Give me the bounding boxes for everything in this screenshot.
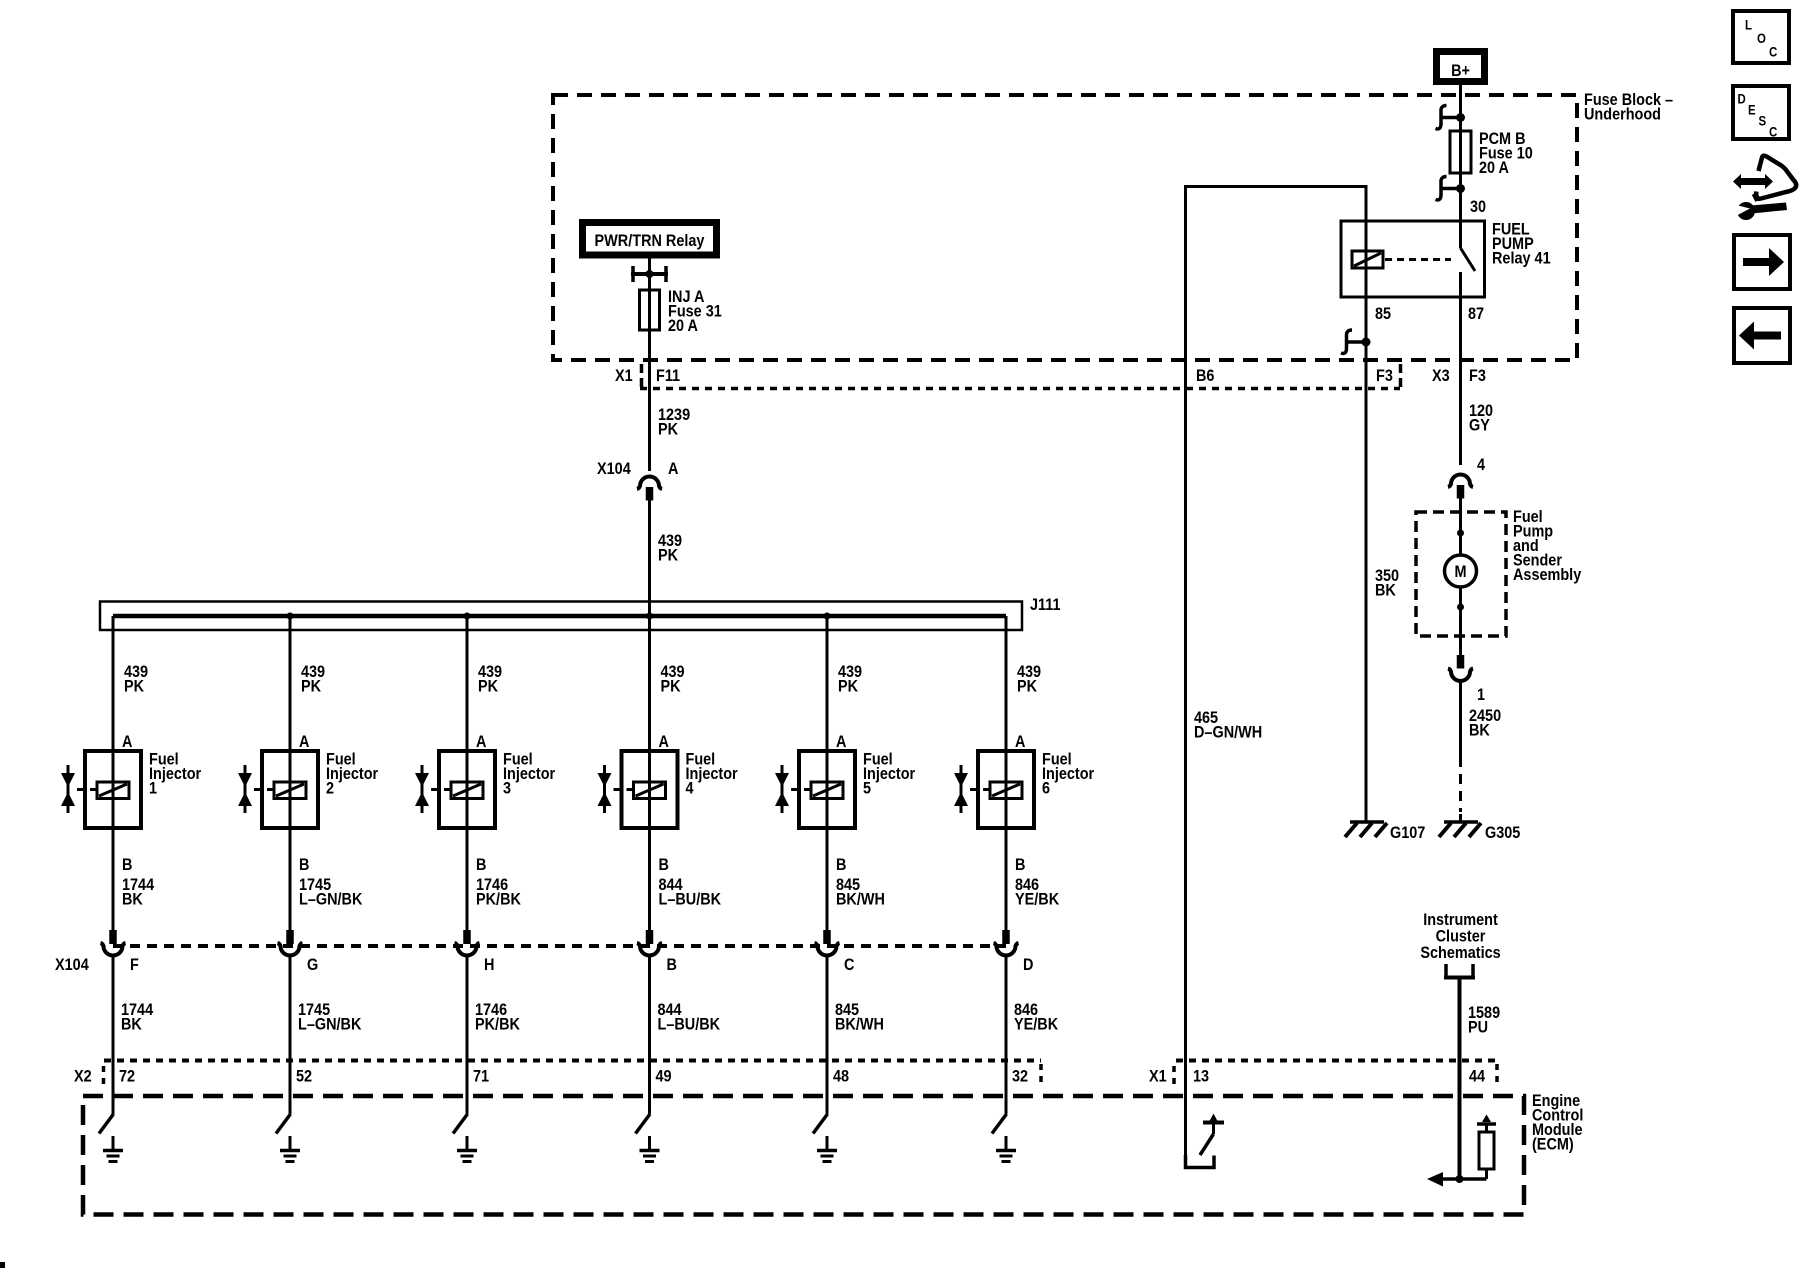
svg-text:BK/WH: BK/WH [836,890,885,908]
label: circuit 845 upper [836,876,885,909]
svg-text:44: 44 [1469,1067,1485,1085]
ECM pin 13 driver bar [1203,1114,1224,1135]
label: Fuel Injector 6 [1042,750,1094,797]
separator X2/72 [102,1066,106,1086]
off-page fork to relay [631,266,668,282]
fuel injector 1 [61,751,141,828]
svg-text:X104: X104 [55,956,89,974]
label: Fuel Injector 1 [149,750,201,797]
fuse block underhood enclosure [553,95,1577,360]
svg-text:G305: G305 [1485,824,1521,842]
svg-text:L–GN/BK: L–GN/BK [298,1015,362,1033]
svg-text:L–BU/BK: L–BU/BK [659,890,722,908]
svg-text:13: 13 [1193,1067,1209,1085]
label: ECM pin 32 [1012,1067,1028,1085]
wire: to G305 dashed [1459,757,1462,822]
wire: relay 87 to pump connector [1459,297,1462,465]
ECM internal ground pin 48 [817,1136,837,1162]
svg-text:G107: G107 [1390,824,1426,842]
label: connector X3 [1432,367,1450,385]
label: Fuel Pump and Sender Assembly [1513,508,1581,584]
svg-text:4: 4 [1477,456,1485,474]
svg-text:E: E [1748,103,1756,118]
label: J111 [1030,596,1061,614]
ECM internal ground pin 49 [640,1136,660,1162]
svg-text:48: 48 [833,1067,849,1085]
label: ECM pin 44 [1469,1067,1485,1085]
label: pin F3 right [1469,367,1486,385]
ECM internal ground pin 52 [280,1136,300,1162]
PWR/TRN Relay reference box [579,219,720,259]
ECM pin 44 pull-up resistor [1477,1115,1496,1180]
svg-text:X3: X3 [1432,367,1450,385]
wire: bus to injector 3 [466,616,469,930]
fuel injector 6 [954,751,1034,828]
wire: X104 to ECM pin 52 [289,957,292,1114]
wire: X104 to ECM pin 49 [648,957,651,1114]
svg-text:Schematics: Schematics [1420,944,1500,962]
svg-text:87: 87 [1468,305,1484,323]
connector X104 pin B [637,930,662,956]
relay coil [1352,251,1383,268]
label: connector X2 [74,1067,92,1085]
label: pin A top [668,460,678,478]
svg-text:B+: B+ [1451,62,1470,80]
label: pin A injector 1 [122,733,132,751]
off-page fork instrument cluster [1444,964,1475,978]
svg-text:F11: F11 [656,367,680,385]
label: pin C [844,956,854,974]
wire: X104 to ECM pin 32 [1005,957,1008,1114]
battery feed B+ terminal [1433,48,1488,85]
wire: X104 to ECM pin 72 [112,957,115,1114]
svg-text:X1: X1 [1149,1067,1167,1085]
nav icon DESC [1733,86,1789,140]
label: pin B injector 1 [122,856,132,874]
svg-text:PK: PK [301,677,322,695]
svg-text:Assembly: Assembly [1513,566,1581,584]
label: circuit 439 PK col 6 [1017,663,1041,696]
connector row dotted line [640,387,1400,391]
svg-text:BK: BK [122,890,143,908]
wire: X104 to ECM pin 71 [466,957,469,1114]
ECM driver blade pin 32 [992,1114,1007,1134]
label: circuit 844 upper [659,876,722,909]
label: circuit 1745 upper [299,876,363,909]
label: circuit 465 D-GN/WH [1194,709,1262,742]
label: circuit 439 PK col 5 [838,663,862,696]
svg-text:YE/BK: YE/BK [1015,890,1060,908]
separator X1/13 [1172,1066,1176,1086]
svg-text:F: F [130,956,139,974]
label: pin A injector 2 [299,733,309,751]
fuel injector 5 [775,751,855,828]
ECM pin 13 contact bracket [1186,1155,1215,1168]
ECM driver blade pin 72 [99,1114,114,1134]
svg-text:BK: BK [1375,581,1396,599]
label: circuit 844 lower [658,1001,721,1034]
svg-text:X2: X2 [74,1067,92,1085]
inline connector pin 1 [1448,655,1485,704]
label: circuit 1746 lower [475,1001,520,1034]
wire: to G305 solid [1459,681,1462,757]
label: Instrument Cluster Schematics [1420,911,1500,962]
fuel injector 4 [598,751,678,828]
label: pin B injector 2 [299,856,309,874]
nav icon back arrow [1734,308,1790,363]
svg-text:32: 32 [1012,1067,1028,1085]
svg-text:71: 71 [473,1067,489,1085]
label: circuit 439 PK col 1 [124,663,148,696]
ECM internal ground pin 72 [103,1136,123,1162]
ECM pin 13 switch blade [1200,1134,1214,1155]
ECM internal ground pin 71 [457,1136,477,1162]
svg-text:J111: J111 [1030,596,1061,614]
label: pin B [667,956,677,974]
wire: connector to motor [1459,498,1462,556]
svg-text:20 A: 20 A [1479,159,1509,177]
svg-text:L: L [1745,18,1752,33]
label: pin F [130,956,139,974]
svg-text:30: 30 [1470,198,1486,216]
svg-text:D: D [1738,92,1746,107]
separator right of F3 [1399,364,1403,391]
label: pin B injector 5 [836,856,846,874]
svg-text:PK: PK [658,546,679,564]
label: connector X1 right [1149,1067,1167,1085]
label: pin H [484,956,494,974]
label: G305 [1485,824,1521,842]
label: circuit 1746 upper [476,876,521,909]
fuse: INJ A Fuse 31 20 A [640,290,660,330]
wire: PWR/TRN relay to X104-A [648,259,651,472]
label: relay pin 30 [1470,198,1486,216]
connector X1 line [1176,1059,1497,1063]
label: circuit 439 PK col 4 [661,663,685,696]
svg-text:GY: GY [1469,416,1490,434]
label: circuit 350 BK [1375,567,1399,600]
wire: X104 to ECM pin 48 [826,957,829,1114]
relay switch output [1459,272,1462,297]
fuse block clip top [1436,106,1466,129]
wire: 350 BK coil to ground [1365,221,1368,821]
svg-text:A: A [1015,733,1025,751]
separator right of 44 [1495,1064,1499,1086]
connector X104 pin D [994,930,1019,956]
svg-text:D: D [1023,956,1033,974]
fuse: PCM B Fuse 10 20 A [1450,131,1471,173]
svg-text:72: 72 [119,1067,135,1085]
svg-text:YE/BK: YE/BK [1014,1015,1059,1033]
relay: FUEL PUMP Relay 41 box [1341,221,1485,297]
label: circuit 439 PK feed [658,532,682,565]
wire: 1589 PU [1458,978,1462,1180]
label: pin D [1023,956,1033,974]
svg-text:PK: PK [1017,677,1038,695]
svg-text:PWR/TRN Relay: PWR/TRN Relay [595,232,705,250]
connector X104 pin F [101,930,126,956]
label: circuit 2450 BK [1469,707,1501,740]
svg-text:(ECM): (ECM) [1532,1135,1574,1153]
label: pin B injector 4 [659,856,669,874]
svg-text:BK/WH: BK/WH [835,1015,884,1033]
J111 bus bar [113,614,1006,619]
separator X1/F11 [640,364,644,391]
svg-text:5: 5 [863,779,871,797]
wire: bus to injector 6 [1005,616,1008,930]
svg-text:G: G [307,956,318,974]
svg-text:PU: PU [1468,1018,1488,1036]
label: Fuel Injector 5 [863,750,915,797]
svg-text:Underhood: Underhood [1584,105,1661,123]
svg-text:3: 3 [503,779,511,797]
Engine Control Module enclosure [83,1096,1524,1215]
svg-text:H: H [484,956,494,974]
label: circuit 846 lower [1014,1001,1059,1034]
svg-text:L–BU/BK: L–BU/BK [658,1015,721,1033]
label: circuit 1239 PK [658,406,690,439]
label: ECM pin 72 [119,1067,135,1085]
svg-text:B: B [1015,856,1025,874]
wire: bus to injector 1 [112,616,115,930]
svg-text:B6: B6 [1196,367,1215,385]
label: relay pin 85 [1375,305,1391,323]
label: circuit 1744 lower [121,1001,153,1034]
label: PCM B Fuse 10 20 A [1479,130,1533,177]
svg-text:2: 2 [326,779,334,797]
label: Fuel Injector 2 [326,750,378,797]
fuse block clip bottom [1436,177,1466,200]
connector X104 line [113,944,1006,948]
svg-text:F3: F3 [1469,367,1486,385]
svg-text:52: 52 [296,1067,312,1085]
svg-text:PK: PK [661,677,682,695]
ECM driver blade pin 71 [453,1114,468,1134]
junction block J111 outline [100,602,1022,631]
svg-text:O: O [1757,31,1766,46]
label: Fuel Injector 3 [503,750,555,797]
label: G107 [1390,824,1426,842]
label: Fuel Injector 4 [686,750,738,797]
wire: 465 D-GN/WH [1186,187,1367,1168]
label: Engine Control Module (ECM) [1532,1092,1583,1154]
label: pin B6 [1196,367,1215,385]
chassis ground G107 [1345,822,1387,837]
inline connector X104-A [637,477,662,501]
page edge mark [0,1262,5,1268]
nav icon LOC [1733,11,1789,63]
svg-text:1: 1 [1477,686,1485,704]
svg-text:L–GN/BK: L–GN/BK [299,890,363,908]
svg-text:B: B [122,856,132,874]
svg-text:B: B [476,856,486,874]
label: pin A injector 3 [476,733,486,751]
svg-text:PK/BK: PK/BK [476,890,521,908]
connector X104 pin C [815,930,840,956]
svg-text:A: A [299,733,309,751]
label: relay pin 87 [1468,305,1484,323]
label: connector X104 top [597,460,631,478]
wire: motor to connector 1 [1459,587,1462,655]
nav icon service jump [1730,156,1796,220]
fuel pump and sender assembly box [1416,512,1506,636]
label: circuit 120 GY [1469,402,1493,435]
label: circuit 1745 lower [298,1001,362,1034]
junction in pump top [1457,530,1464,537]
ECM internal ground pin 32 [996,1136,1016,1162]
ECM pin 44 signal arrow [1427,1172,1487,1187]
svg-text:B: B [299,856,309,874]
svg-text:A: A [122,733,132,751]
svg-text:PK: PK [124,677,145,695]
svg-text:B: B [659,856,669,874]
svg-text:1: 1 [149,779,157,797]
ECM pin 44 junction [1456,1175,1464,1183]
svg-text:PK: PK [478,677,499,695]
svg-text:C: C [1769,45,1777,60]
wire: bus to injector 5 [826,616,829,930]
label: Fuse Block - Underhood [1584,91,1673,124]
wire: bus to injector 2 [289,616,292,930]
separator right of 32 [1039,1064,1043,1086]
label: pin A injector 6 [1015,733,1025,751]
svg-text:X104: X104 [597,460,631,478]
label: circuit 846 upper [1015,876,1060,909]
svg-text:BK: BK [1469,721,1490,739]
label: INJ A Fuse 31 20 A [668,288,722,335]
label: ECM pin 52 [296,1067,312,1085]
fuel injector 2 [238,751,318,828]
junction in pump bottom [1457,604,1464,611]
label: circuit 439 PK col 3 [478,663,502,696]
connector X2 line [104,1059,1041,1063]
label: pin B injector 6 [1015,856,1025,874]
label: connector X1 [615,367,633,385]
connector X104 pin H [455,930,480,956]
svg-text:A: A [476,733,486,751]
svg-text:PK: PK [658,420,679,438]
svg-text:BK: BK [121,1015,142,1033]
svg-text:B: B [836,856,846,874]
svg-text:4: 4 [686,779,694,797]
chassis ground G305 [1439,822,1481,837]
wire: X104-A to bus J111 [648,500,651,930]
label: FUEL PUMP Relay 41 [1492,220,1551,267]
label: pin B injector 3 [476,856,486,874]
svg-text:X1: X1 [615,367,633,385]
fuel injector 3 [415,751,495,828]
label: ECM pin 13 [1193,1067,1209,1085]
label: ECM pin 71 [473,1067,489,1085]
ECM driver blade pin 49 [636,1114,651,1134]
relay switch blade [1461,248,1476,271]
fuse block clip pin 85 [1341,330,1371,353]
nav icon forward arrow [1734,235,1790,289]
label: connector X104 [55,956,89,974]
label: pin F11 [656,367,680,385]
svg-text:Relay 41: Relay 41 [1492,249,1551,267]
svg-text:D–GN/WH: D–GN/WH [1194,723,1262,741]
svg-text:20 A: 20 A [668,317,698,335]
label: pin G [307,956,318,974]
inline connector pin 4 [1448,456,1485,499]
label: pin A injector 4 [659,733,669,751]
ECM driver blade pin 52 [276,1114,291,1134]
svg-text:C: C [844,956,854,974]
label: ECM pin 48 [833,1067,849,1085]
svg-text:M: M [1454,563,1466,581]
bus junction dots [287,613,831,620]
label: circuit 1589 PU [1468,1004,1500,1037]
svg-text:A: A [668,460,678,478]
svg-text:PK: PK [838,677,859,695]
svg-text:PK/BK: PK/BK [475,1015,520,1033]
fuel pump motor M [1445,555,1477,587]
svg-text:S: S [1759,114,1767,129]
svg-text:6: 6 [1042,779,1050,797]
label: pin A injector 5 [836,733,846,751]
svg-text:A: A [836,733,846,751]
label: circuit 845 lower [835,1001,884,1034]
wire: B+ to relay switch [1459,85,1462,248]
label: circuit 1744 upper [122,876,154,909]
label: ECM pin 49 [656,1067,672,1085]
relay coil-switch link [1385,258,1451,261]
label: circuit 439 PK col 2 [301,663,325,696]
svg-text:49: 49 [656,1067,672,1085]
svg-text:85: 85 [1375,305,1391,323]
ECM driver blade pin 48 [813,1114,828,1134]
svg-text:C: C [1769,125,1777,140]
connector X104 pin G [278,930,303,956]
label: pin F3 left [1376,367,1393,385]
svg-text:A: A [659,733,669,751]
svg-text:F3: F3 [1376,367,1393,385]
svg-text:B: B [667,956,677,974]
